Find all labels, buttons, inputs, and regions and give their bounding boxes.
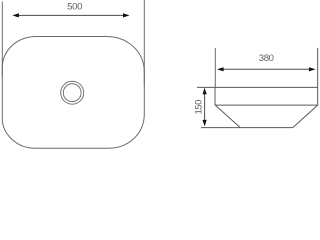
dim 380 right arrowhead xyxy=(309,67,316,71)
side view rim left edge xyxy=(214,87,216,105)
side view bottom edge (with 150 extension tail) xyxy=(201,127,293,129)
basin outline (top view) xyxy=(2,37,144,149)
svg-text:500: 500 xyxy=(67,2,82,13)
dim 380 left extension line xyxy=(214,48,216,87)
dim 500 right arrowhead xyxy=(123,13,130,17)
side view right edge + dim 380 right extension line xyxy=(317,48,319,105)
dim 500 right extension line xyxy=(143,0,145,86)
dim 500 left arrowhead xyxy=(12,13,19,17)
dim 380 left arrowhead xyxy=(217,67,224,71)
side view top edge (with 150 extension tail) xyxy=(197,86,318,88)
side view left slope xyxy=(215,105,240,128)
dim 500 left extension line xyxy=(1,2,3,78)
side view rim bottom edge xyxy=(215,104,318,106)
dim 150 up arrowhead xyxy=(203,88,207,95)
svg-text:150: 150 xyxy=(193,100,204,115)
svg-text:380: 380 xyxy=(259,53,274,64)
dim 500 dimension line xyxy=(16,14,126,16)
dim 150 dimension line xyxy=(204,90,206,123)
dim 150 down arrowhead xyxy=(203,120,207,127)
drain inner circle xyxy=(63,84,81,102)
side view right slope xyxy=(293,105,318,128)
dim 380 dimension line xyxy=(220,68,313,70)
drain outer circle xyxy=(61,81,84,104)
